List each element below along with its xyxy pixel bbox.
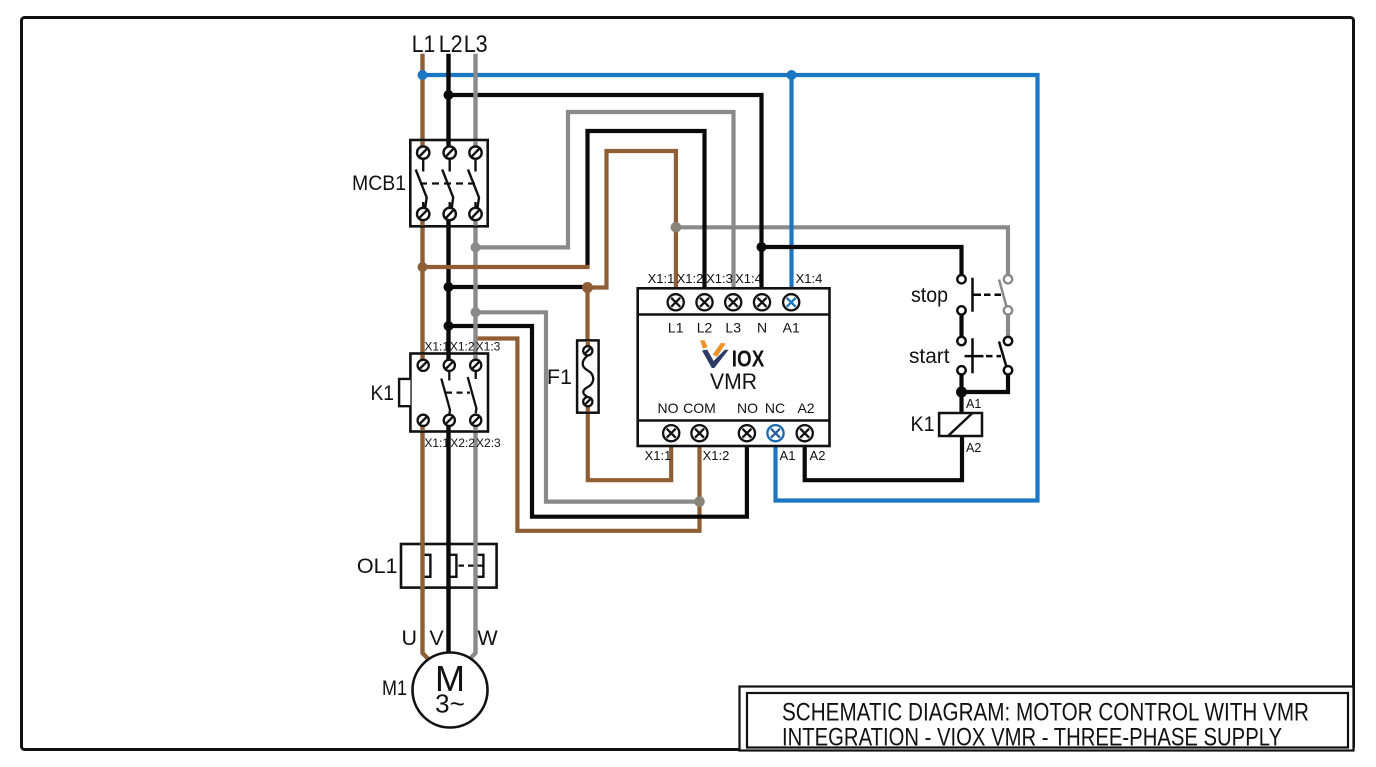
svg-text:X1:4: X1:4 bbox=[735, 271, 762, 286]
svg-text:IOX: IOX bbox=[732, 346, 765, 372]
node brown tap on L1 upper bbox=[418, 262, 428, 272]
node black stop branch bbox=[757, 242, 767, 252]
svg-text:NO: NO bbox=[737, 400, 758, 416]
svg-text:A1: A1 bbox=[780, 448, 796, 463]
svg-text:X1:3: X1:3 bbox=[476, 340, 501, 354]
wire black riser to VMR L2 bbox=[588, 131, 705, 290]
wire stubs K1 bbox=[423, 355, 476, 431]
terminal X1:1 top bbox=[668, 294, 771, 310]
svg-text:U: U bbox=[402, 626, 418, 650]
svg-text:COM: COM bbox=[683, 400, 716, 416]
wire gray aux to stop contact bbox=[676, 227, 1008, 276]
F1 fuse terminals and element bbox=[583, 346, 594, 406]
svg-text:INTEGRATION - VIOX VMR - THREE: INTEGRATION - VIOX VMR - THREE-PHASE SUP… bbox=[782, 724, 1282, 752]
phase wire stubs through OL1 bbox=[423, 544, 476, 588]
wire brown riser to VMR L1 bbox=[588, 151, 676, 290]
pushbutton stop bbox=[911, 275, 1012, 337]
svg-text:L1: L1 bbox=[668, 320, 684, 336]
logo V navy bbox=[702, 350, 729, 368]
svg-text:X1:1: X1:1 bbox=[645, 448, 672, 463]
wire blue drop to VMR A1 bbox=[789, 75, 793, 290]
svg-text:X1:2: X1:2 bbox=[677, 271, 704, 286]
svg-text:MCB1: MCB1 bbox=[352, 171, 406, 195]
svg-text:M1: M1 bbox=[382, 676, 407, 700]
svg-text:A2: A2 bbox=[810, 448, 826, 463]
svg-text:L1: L1 bbox=[412, 31, 436, 58]
svg-text:SCHEMATIC DIAGRAM: MOTOR CONTR: SCHEMATIC DIAGRAM: MOTOR CONTROL WITH VM… bbox=[782, 699, 1309, 727]
svg-text:start: start bbox=[909, 344, 950, 368]
logo VIOX bbox=[700, 340, 765, 371]
wire brown L1 tap upper bbox=[423, 265, 588, 269]
svg-text:A2: A2 bbox=[797, 400, 814, 416]
breaker MCB1 bbox=[352, 140, 488, 226]
wire stubs MCB1 bbox=[423, 141, 476, 226]
svg-text:L3: L3 bbox=[464, 31, 488, 58]
wire black L2 to VMR N bbox=[449, 95, 762, 290]
node junction above coil bbox=[956, 387, 967, 398]
logo orange check small bbox=[700, 340, 707, 349]
wire brown F1 feed bbox=[585, 288, 589, 348]
title block bbox=[740, 687, 1354, 752]
svg-text:3~: 3~ bbox=[435, 689, 465, 719]
wire start to K1 coil junction bbox=[962, 375, 1009, 414]
stop right contact gray bbox=[999, 275, 1012, 337]
svg-text:VMR: VMR bbox=[710, 369, 757, 394]
svg-text:NO: NO bbox=[658, 400, 679, 416]
svg-text:A1: A1 bbox=[966, 397, 981, 411]
svg-text:OL1: OL1 bbox=[357, 554, 398, 578]
svg-text:X2:3: X2:3 bbox=[476, 436, 501, 450]
terminal NC bottom blue bbox=[767, 425, 783, 441]
svg-text:X1:1: X1:1 bbox=[648, 271, 675, 286]
svg-text:K1: K1 bbox=[371, 381, 395, 405]
svg-text:stop: stop bbox=[911, 283, 948, 307]
wire brown sense from L3 tap to VMR COM bbox=[477, 339, 700, 531]
svg-text:X1:4: X1:4 bbox=[796, 271, 823, 286]
node gray tap on L3 bbox=[471, 242, 481, 252]
relay module VMR bbox=[638, 271, 830, 463]
contactor K1 bbox=[371, 340, 502, 451]
node blue tap on L1 bbox=[418, 70, 428, 80]
svg-text:X1:1: X1:1 bbox=[424, 436, 449, 450]
svg-text:N: N bbox=[757, 320, 767, 336]
wire L2 phase black vertical bbox=[446, 56, 450, 655]
wire gray L3 sense to COM junction bbox=[476, 312, 700, 501]
svg-text:L3: L3 bbox=[725, 320, 741, 336]
motor M1 bbox=[382, 626, 498, 728]
node blue junction at A1 drop bbox=[787, 70, 797, 80]
svg-text:K1: K1 bbox=[911, 412, 935, 436]
wire stop to start bbox=[959, 315, 963, 337]
wire L1 phase brown vertical bbox=[423, 56, 433, 663]
svg-text:L2: L2 bbox=[697, 320, 713, 336]
fuse F1 bbox=[547, 340, 599, 412]
start right contact bbox=[999, 337, 1012, 375]
svg-text:W: W bbox=[477, 626, 498, 650]
wire brown F1 out to VMR NO1 bbox=[588, 406, 671, 480]
overload OL1 bbox=[357, 544, 497, 588]
wire gray L3 to VMR L3 bbox=[476, 112, 734, 290]
node brown F1 junction bbox=[582, 282, 593, 293]
wire black VMR A2 to coil K1 A2 bbox=[805, 437, 962, 480]
svg-text:A2: A2 bbox=[966, 441, 981, 455]
MCB1 poles terminals and blades bbox=[416, 146, 482, 220]
svg-text:X1:1: X1:1 bbox=[424, 340, 449, 354]
svg-text:F1: F1 bbox=[547, 365, 572, 389]
wire black L2 sense to VMR NO2 bbox=[449, 326, 747, 517]
wire black branch to stop button bbox=[762, 247, 962, 276]
coil K1 bbox=[911, 397, 983, 455]
terminal A1 top blue bbox=[783, 294, 799, 310]
logo orange check big bbox=[713, 343, 726, 357]
K1 poles terminals and blades bbox=[418, 360, 482, 426]
svg-text:L2: L2 bbox=[439, 31, 463, 58]
wire black L2 tap to F1 junction bbox=[449, 285, 588, 289]
pushbutton start bbox=[909, 337, 1012, 375]
node gray junction on COM wire bbox=[694, 496, 705, 507]
node gray dot on brown riser bbox=[671, 222, 682, 233]
svg-text:A1: A1 bbox=[783, 320, 800, 336]
node black tap on L2 at F1 row bbox=[444, 282, 454, 292]
svg-text:NC: NC bbox=[765, 400, 785, 416]
svg-text:X2:2: X2:2 bbox=[450, 436, 475, 450]
node gray tap on L3 sense bbox=[471, 307, 481, 317]
svg-text:V: V bbox=[429, 626, 444, 650]
wire stubs F1 bbox=[586, 341, 590, 412]
wire L3 phase gray vertical bbox=[466, 56, 476, 663]
svg-text:X1:2: X1:2 bbox=[450, 340, 475, 354]
svg-text:X1:3: X1:3 bbox=[706, 271, 733, 286]
node black tap on L2 sense bbox=[444, 321, 454, 331]
svg-text:X1:2: X1:2 bbox=[703, 448, 730, 463]
wire blue neutral bus top bbox=[423, 75, 1038, 501]
VMR bottom terminals NO COM NO bbox=[663, 425, 813, 441]
node black tap on L2 top bbox=[444, 90, 454, 100]
